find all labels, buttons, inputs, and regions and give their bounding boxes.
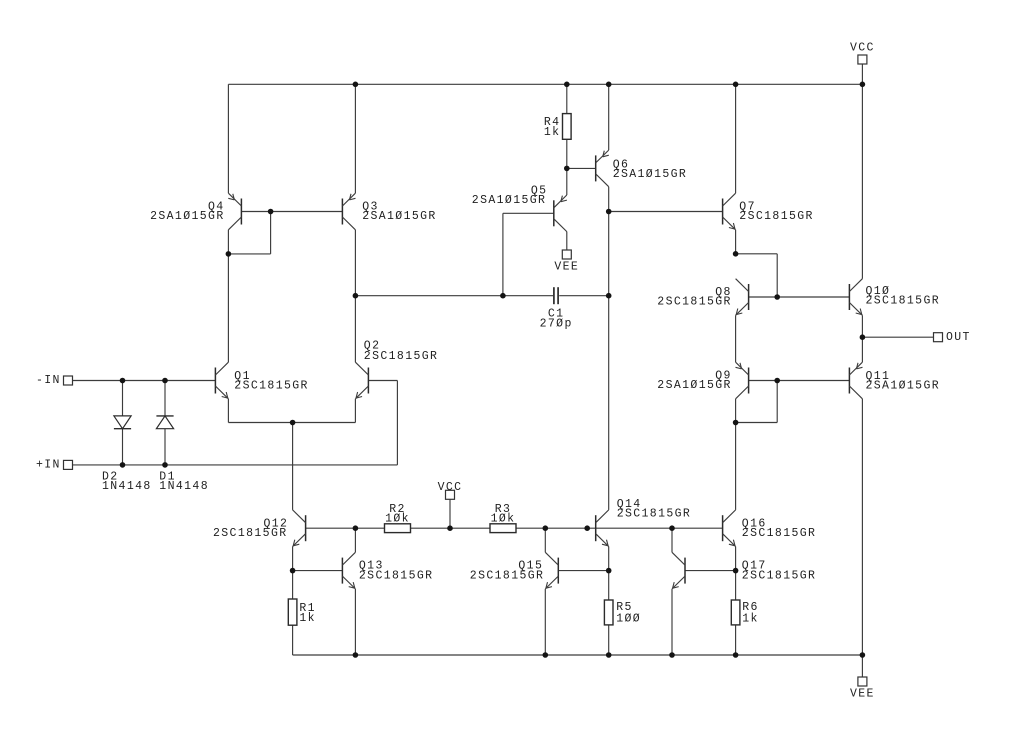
wire Q3 collector to Q2 collector: [354, 230, 356, 362]
svg-text:OUT: OUT: [946, 331, 971, 344]
wire Q13 emitter drop: [354, 589, 356, 655]
junction: [733, 251, 739, 257]
transistor Q6 (2SA1015GR): [596, 150, 688, 187]
svg-text:2SC1815GR: 2SC1815GR: [213, 527, 288, 540]
svg-text:-IN: -IN: [36, 374, 61, 387]
svg-text:VCC: VCC: [438, 481, 463, 494]
diode D2 1N4148: [102, 416, 152, 493]
junction: [290, 568, 296, 574]
wire Q13 base: [293, 570, 343, 572]
svg-text:+IN: +IN: [36, 459, 61, 472]
junction: [162, 462, 168, 468]
wire VEE bottom bus: [293, 654, 863, 656]
wire Q10 collector riser: [861, 84, 863, 278]
wire Q15 base: [558, 570, 608, 572]
wire VEE stub: [861, 655, 863, 677]
wire left rail upper: [227, 84, 229, 193]
wire Q15 emitter drop: [544, 589, 546, 655]
wire bias link horizontal: [736, 253, 778, 255]
transistor Q12 (2SC1815GR): [213, 510, 306, 547]
resistor R4 1k: [544, 114, 571, 140]
svg-text:2SC1815GR: 2SC1815GR: [739, 210, 814, 223]
wire Q4-Q3 base link: [241, 211, 342, 213]
transistor Q4 (2SA1015GR): [150, 193, 241, 230]
junction: [543, 652, 549, 658]
wire Q16 emitter drop: [735, 547, 737, 571]
junction: [268, 209, 274, 215]
transistor Q11 (2SA1015GR): [849, 362, 940, 399]
svg-text:2SC1815GR: 2SC1815GR: [364, 350, 439, 363]
svg-text:VEE: VEE: [554, 261, 579, 274]
svg-text:2SC1815GR: 2SC1815GR: [866, 294, 941, 307]
transistor Q15 (2SC1815GR): [470, 552, 559, 589]
junction: [669, 525, 675, 531]
wire R4 top: [566, 84, 568, 113]
wire Q5 emitter riser: [566, 168, 568, 195]
wire Q15 collector riser: [544, 528, 546, 552]
svg-text:2SC1815GR: 2SC1815GR: [657, 296, 732, 309]
junction: [860, 652, 866, 658]
svg-text:VEE: VEE: [850, 687, 875, 700]
svg-text:2SC1815GR: 2SC1815GR: [470, 569, 545, 582]
wire Q2 base stub: [368, 380, 397, 382]
wire bias line b: [411, 527, 491, 529]
power VEE mid: [554, 250, 579, 274]
junction: [606, 568, 612, 574]
wire Q5 collector to VEE: [566, 232, 568, 250]
wire Q9 tie vertical: [776, 381, 778, 423]
wire VCC top bus: [228, 83, 862, 85]
wire Q6 emitter riser: [608, 84, 610, 150]
wire tail to Q12 collector: [292, 423, 294, 510]
power VCC mid: [438, 481, 463, 499]
svg-text:2SC1815GR: 2SC1815GR: [742, 527, 817, 540]
transistor Q14 (2SC1815GR): [596, 498, 692, 547]
junction: [733, 82, 739, 88]
svg-text:1k: 1k: [544, 126, 561, 139]
junction: [733, 420, 739, 426]
diode D1 1N4148: [156, 416, 209, 493]
svg-text:2SC1815GR: 2SC1815GR: [742, 569, 817, 582]
junction: [564, 82, 570, 88]
junction: [120, 462, 126, 468]
wire Q8 emitter to Q9 emitter: [735, 315, 737, 362]
svg-text:1k: 1k: [299, 612, 316, 625]
transistor Q9 (2SA1015GR): [657, 362, 748, 399]
resistor R3 10k: [490, 503, 516, 533]
wire Q2 emitter drop: [354, 399, 356, 423]
wire Q1 emitter drop: [227, 399, 229, 423]
transistor Q17 (2SC1815GR): [672, 552, 816, 589]
svg-text:27Øp: 27Øp: [540, 318, 573, 331]
wire OUT line: [862, 336, 933, 338]
wire bias line c: [516, 527, 723, 529]
wire D1 anode: [164, 429, 166, 465]
svg-text:2SA1Ø15GR: 2SA1Ø15GR: [150, 210, 225, 223]
junction: [733, 652, 739, 658]
resistor R5 100: [604, 600, 641, 625]
junction: [606, 652, 612, 658]
transistor Q5 (2SA1015GR): [472, 184, 567, 231]
wire Q12 emitter drop: [292, 547, 294, 571]
wire +IN line: [73, 464, 398, 466]
junction: [860, 82, 866, 88]
wire R1 top: [292, 571, 294, 599]
junction: [162, 378, 168, 384]
wire VCC mid stub: [449, 499, 451, 528]
wire Q5 base tap horizontal: [503, 212, 554, 214]
svg-text:2SC1815GR: 2SC1815GR: [234, 379, 309, 392]
junction: [606, 209, 612, 215]
transistor Q13 (2SC1815GR): [342, 552, 433, 589]
resistor R1 1k: [288, 599, 316, 625]
wire R4 bottom: [566, 139, 568, 168]
wire bias link vertical: [776, 254, 778, 297]
wire Q4 base-collector tie vertical: [270, 212, 272, 254]
junction: [860, 334, 866, 340]
junction: [500, 293, 506, 299]
svg-text:2SA1Ø15GR: 2SA1Ø15GR: [472, 194, 547, 207]
junction: [543, 525, 549, 531]
wire R5 top: [608, 571, 610, 600]
transistor Q16 (2SC1815GR): [723, 510, 817, 547]
svg-text:1k: 1k: [742, 612, 759, 625]
transistor Q1 (2SC1815GR): [215, 362, 308, 399]
port -IN: [36, 374, 73, 387]
svg-text:2SC1815GR: 2SC1815GR: [617, 508, 692, 521]
wire left rail Q4 collector to Q1 collector: [227, 230, 229, 362]
wire Q3 emitter riser: [354, 84, 356, 193]
transistor Q8 (2SC1815GR): [657, 279, 748, 316]
wire VCC top stub: [861, 64, 863, 84]
svg-text:1N4148: 1N4148: [159, 480, 209, 493]
wire Q17 emitter drop: [671, 589, 673, 655]
junction: [606, 293, 612, 299]
wire Q9 tie horizontal: [736, 422, 778, 424]
wire R6 bottom: [735, 625, 737, 655]
wire Q17 base: [685, 570, 736, 572]
junction: [353, 652, 359, 658]
junction: [120, 378, 126, 384]
wire Q4 base-collector tie horizontal: [228, 253, 270, 255]
transistor Q7 (2SC1815GR): [723, 193, 814, 230]
wire Q11 emitter riser: [861, 337, 863, 362]
wire Q2 base drop: [396, 381, 398, 465]
resistor R6 1k: [731, 600, 758, 625]
junction: [353, 525, 359, 531]
wire R6 top: [735, 571, 737, 600]
wire D1 cathode: [164, 381, 166, 416]
svg-text:2SC1815GR: 2SC1815GR: [359, 569, 434, 582]
svg-text:2SA1Ø15GR: 2SA1Ø15GR: [866, 380, 941, 393]
junction: [733, 568, 739, 574]
junction: [290, 420, 296, 426]
wire D2 cathode: [122, 429, 124, 465]
svg-text:1ØØ: 1ØØ: [616, 612, 641, 625]
junction: [353, 82, 359, 88]
wire Q9 collector rail: [735, 399, 737, 510]
resistor R2 10k: [385, 503, 411, 533]
port +IN: [36, 459, 73, 472]
wire Q6 base: [567, 167, 596, 169]
transistor Q2 (2SC1815GR): [355, 340, 438, 399]
wire D2 anode: [122, 381, 124, 416]
junction: [353, 293, 359, 299]
wire Q7 base: [609, 211, 723, 213]
wire Q10 emitter drop: [861, 315, 863, 337]
junction: [584, 525, 590, 531]
junction: [564, 166, 570, 172]
wire Q7 emitter drop: [735, 230, 737, 254]
wire Q8-Q10 base link: [749, 296, 850, 298]
power VEE bottom: [850, 677, 875, 700]
port OUT: [934, 331, 971, 344]
junction: [669, 652, 675, 658]
junction: [774, 378, 780, 384]
wire R1 bottom: [292, 625, 294, 655]
wire Q13 collector riser: [354, 528, 356, 552]
capacitor C1 270p: [540, 287, 573, 331]
svg-text:2SA1Ø15GR: 2SA1Ø15GR: [657, 379, 732, 392]
wire comp node right: [559, 295, 609, 297]
transistor Q3 (2SA1015GR): [342, 193, 436, 230]
svg-text:1Øk: 1Øk: [491, 512, 516, 525]
wire R5 bottom: [608, 625, 610, 655]
wire VAS rail: [608, 187, 610, 510]
junction: [606, 82, 612, 88]
power VCC top: [850, 42, 875, 65]
wire Q11 collector drop: [861, 399, 863, 655]
wire Q17 collector riser: [671, 528, 673, 552]
svg-text:2SA1Ø15GR: 2SA1Ø15GR: [613, 168, 688, 181]
wire Q14 emitter drop: [608, 547, 610, 571]
wire diff pair emitter join: [228, 422, 355, 424]
wire comp node left: [355, 295, 553, 297]
svg-text:2SA1Ø15GR: 2SA1Ø15GR: [362, 210, 437, 223]
junction: [447, 525, 453, 531]
wire Q5 base tap vertical: [502, 213, 504, 295]
svg-text:1Øk: 1Øk: [385, 512, 410, 525]
wire Q7 collector riser: [735, 84, 737, 193]
wire Q9-Q11 base link: [749, 380, 850, 382]
svg-text:1N4148: 1N4148: [102, 480, 152, 493]
junction: [226, 251, 232, 257]
wire bias line a: [306, 527, 385, 529]
junction: [774, 294, 780, 300]
wire -IN to Q1 base: [73, 380, 216, 382]
transistor Q10 (2SC1815GR): [849, 279, 940, 316]
svg-text:VCC: VCC: [850, 42, 875, 55]
